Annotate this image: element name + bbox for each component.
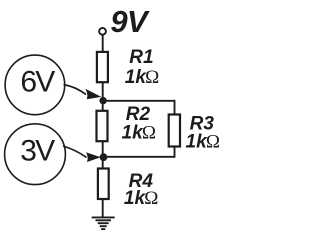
svg-text:R1: R1 (129, 47, 153, 68)
svg-text:1kΩ: 1kΩ (125, 67, 159, 88)
svg-text:1kΩ: 1kΩ (124, 188, 158, 209)
svg-text:6V: 6V (20, 66, 55, 99)
svg-text:1kΩ: 1kΩ (186, 132, 220, 153)
svg-text:9V: 9V (110, 4, 149, 39)
svg-text:3V: 3V (20, 135, 55, 168)
svg-text:1kΩ: 1kΩ (122, 122, 156, 143)
